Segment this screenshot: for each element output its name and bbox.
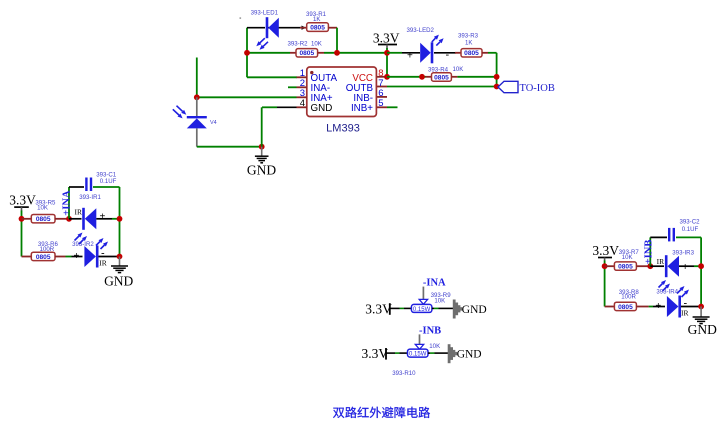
svg-text:IR: IR bbox=[681, 309, 689, 318]
svg-text:3.3V: 3.3V bbox=[365, 302, 392, 317]
svg-text:393-LED1: 393-LED1 bbox=[251, 9, 279, 16]
svg-text:GND: GND bbox=[457, 349, 482, 361]
svg-text:0805: 0805 bbox=[36, 254, 51, 261]
svg-text:0.15W: 0.15W bbox=[409, 352, 427, 358]
svg-text:1K: 1K bbox=[313, 16, 320, 23]
svg-text:+INA: +INA bbox=[62, 190, 73, 216]
svg-text:IR: IR bbox=[75, 207, 83, 216]
svg-text:0805: 0805 bbox=[310, 25, 325, 32]
svg-text:393-C2: 393-C2 bbox=[680, 218, 701, 225]
svg-text:3.3V: 3.3V bbox=[592, 243, 619, 258]
svg-text:393-R2: 393-R2 bbox=[288, 41, 309, 48]
svg-text:1K: 1K bbox=[465, 40, 472, 47]
svg-text:0805: 0805 bbox=[434, 74, 449, 81]
svg-text:3.3V: 3.3V bbox=[373, 30, 400, 45]
svg-text:+: + bbox=[407, 51, 413, 62]
svg-text:+: + bbox=[100, 212, 106, 223]
svg-text:393-R3: 393-R3 bbox=[458, 33, 479, 40]
svg-text:3.3V: 3.3V bbox=[9, 193, 36, 208]
svg-text:GND: GND bbox=[688, 322, 717, 337]
svg-text:393-R4: 393-R4 bbox=[428, 66, 449, 73]
svg-text:10K: 10K bbox=[434, 298, 445, 305]
svg-text:5: 5 bbox=[378, 98, 383, 109]
svg-text:10K: 10K bbox=[429, 343, 440, 350]
svg-text:GND: GND bbox=[247, 163, 276, 178]
svg-text:393-IR1: 393-IR1 bbox=[79, 194, 101, 201]
svg-text:100R: 100R bbox=[621, 294, 636, 301]
svg-text:0805: 0805 bbox=[299, 50, 314, 57]
svg-text:-: - bbox=[446, 49, 450, 61]
svg-text:IR: IR bbox=[99, 259, 107, 268]
svg-text:-INA: -INA bbox=[423, 277, 446, 288]
svg-text:0805: 0805 bbox=[618, 304, 633, 311]
svg-text:0805: 0805 bbox=[464, 50, 479, 57]
svg-text:GND: GND bbox=[462, 304, 487, 316]
svg-text:100R: 100R bbox=[40, 246, 55, 253]
svg-text:+INB: +INB bbox=[644, 240, 655, 265]
svg-text:3.3V: 3.3V bbox=[362, 346, 389, 361]
svg-text:10K: 10K bbox=[311, 41, 322, 48]
svg-text:393-IR2: 393-IR2 bbox=[72, 241, 94, 248]
svg-text:IR: IR bbox=[657, 257, 665, 266]
svg-text:-INB: -INB bbox=[419, 325, 441, 336]
svg-text:393-IR3: 393-IR3 bbox=[672, 250, 694, 257]
svg-text:10K: 10K bbox=[622, 254, 633, 261]
svg-text:GND: GND bbox=[311, 103, 333, 114]
svg-text:+: + bbox=[655, 301, 661, 312]
svg-text:0.1UF: 0.1UF bbox=[682, 226, 699, 233]
svg-text:0.15W: 0.15W bbox=[413, 307, 431, 313]
svg-text:393-R10: 393-R10 bbox=[392, 370, 416, 377]
svg-text:GND: GND bbox=[104, 273, 133, 288]
svg-text:10K: 10K bbox=[453, 66, 464, 73]
svg-text:V4: V4 bbox=[210, 120, 217, 126]
svg-text:TO-IOB: TO-IOB bbox=[520, 83, 555, 94]
svg-text:4: 4 bbox=[300, 98, 305, 109]
svg-text:393-IR4: 393-IR4 bbox=[656, 289, 678, 296]
svg-text:0805: 0805 bbox=[618, 264, 633, 271]
svg-text:0.1UF: 0.1UF bbox=[100, 178, 117, 185]
svg-text:0805: 0805 bbox=[36, 216, 51, 223]
svg-text:+: + bbox=[682, 262, 688, 273]
svg-text:10K: 10K bbox=[37, 205, 48, 212]
svg-text:393-LED2: 393-LED2 bbox=[407, 27, 435, 34]
svg-text:INB+: INB+ bbox=[351, 103, 373, 114]
svg-text:+: + bbox=[74, 251, 80, 262]
svg-text:LM393: LM393 bbox=[326, 123, 360, 135]
